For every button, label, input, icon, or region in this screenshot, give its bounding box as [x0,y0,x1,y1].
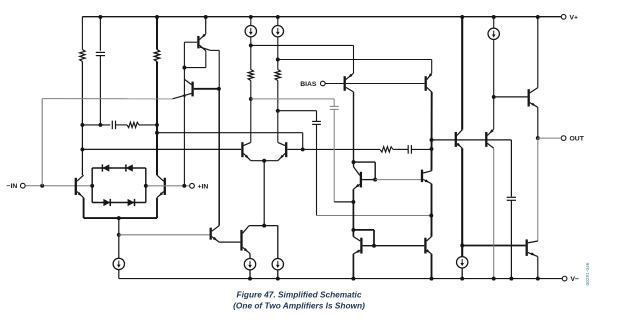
junction QmirL rail [351,277,355,281]
label V- [571,276,580,283]
junction RC/x157 [155,123,159,127]
node tail top [117,216,121,220]
current source I1 [245,26,256,37]
capacitor C6 (RC series) [112,121,115,130]
junction QA diode node [182,66,186,70]
wire R1 to Q1 collector [81,62,83,176]
wire Qcasc emitter down (heavy) [431,184,433,237]
label V+ [570,14,579,21]
wire Q13 emitter down (heavy) [461,148,463,257]
junction rail I3 [492,15,496,19]
current source I5 [244,259,255,270]
wire rail down to R2 [156,17,158,50]
wire QA 2nd collector to x219 [211,49,220,51]
junction I7 rail [460,277,464,281]
wire I5 to rail [249,270,251,279]
junction I6 rail [276,277,280,281]
wire down to Qbias1 emitter [353,45,355,73]
wire C2 column bottom [316,125,318,216]
wire QA base left [184,41,197,43]
junction I5 rail [248,277,252,281]
wire C1 down to RC node [99,56,101,125]
wire C6 to R6 [116,124,127,126]
junction cascode y215 [429,214,433,218]
capacitor C2 [312,121,321,124]
junction rail I2 [276,15,280,19]
wire pair emitter join [251,160,278,162]
wire pair tail down [263,161,265,226]
wire QD2 emitter to I5 [249,254,251,259]
wire mirror hook right [353,229,374,231]
current source I6 [272,259,283,270]
capacitor C1 [96,52,105,55]
wire C2 feed [278,110,317,112]
junction cascode base tap [430,138,434,142]
wire Qcasc base feed (gray) [375,179,421,181]
wire C3 column top [333,99,335,106]
junction QmirR rail [430,277,434,281]
svg-text:Figure 47. Simplified Schemati: Figure 47. Simplified Schematic [237,290,362,300]
terminal OUT [561,136,566,141]
transistor Qbias2 (PNP) [426,73,433,92]
wire QA collector down [205,51,207,68]
wire I6 to rail [277,270,279,279]
wire R2 to Q2 collector (thick) [156,62,158,176]
wire Q14 collector down (gray) [493,148,495,279]
wire R6 to node x157 [139,124,157,126]
wire QmirL emitter to rail [352,254,354,279]
wire Qgain base [362,179,375,181]
wire rail to C1 [99,17,101,51]
wire Q8 base hook down [302,133,304,150]
junction Q8 base node [301,147,305,151]
wire down to Qbias2 emitter [431,60,433,74]
wire QmirL base [363,245,374,247]
diode D3 [103,199,110,206]
wire QoutT emitter to OUT [537,107,539,138]
diode D1 [102,164,109,171]
transistor QmirL (NPN diode-connected) [353,237,361,254]
wire QD2 collector wire y225 [249,225,278,227]
current source I7 [457,257,468,268]
capacitor C3 [330,106,339,109]
junction rail QoutT [536,15,540,19]
wire bias interbase [346,83,425,85]
transistor Q7 (2nd stage left) [242,142,250,161]
wire QA base down [183,42,185,67]
wire Qbias2 collector down (heavy) [431,92,433,171]
wire R4 to Q8 collector [277,81,279,143]
wire I1 to R3 [250,37,252,70]
current source I4 (input tail) [113,258,124,269]
wire QoutB emitter to rail [537,257,539,279]
label +IN [198,183,209,190]
wire rail to I1 [250,17,252,26]
wire x219 down to QD1 collector [218,89,220,226]
wire emitter join [84,217,157,219]
junction mirror hook top [351,228,355,232]
junction rail C1 [98,15,102,19]
transistor QA (PNP diode-connected) [198,34,210,51]
current source I2 [272,26,283,37]
junction rail I1 [249,15,253,19]
junction rail QA [204,15,208,19]
transistor QmirR (NPN) [425,237,431,254]
wire bottom V- rail [119,278,562,280]
label -IN [7,183,18,190]
wire QB base to x219 (thick) [194,88,219,90]
svg-text:V−: V− [571,276,580,283]
node bridge right [144,184,148,188]
label OUT [570,136,585,143]
caption line 2 [233,300,365,310]
wire rail down to Q13 collector (heavy) [461,17,463,130]
transistor Q14 (PNP) [486,129,493,148]
wire OUT stub [538,137,562,139]
wire QmirR base feed [374,245,424,247]
wire -IN lead [25,185,92,187]
wire QmirL collector stub [352,230,354,237]
junction miller tap [430,147,434,151]
wire QA collector to base link [184,67,205,69]
node -IN junction [40,184,44,188]
resistor R3 [248,70,253,81]
terminal -IN [20,183,25,188]
svg-text:00291-046: 00291-046 [585,262,591,285]
wire Q2 emitter down [156,198,158,218]
transistor Qcasc (NPN) [422,170,432,184]
figure code (rotated) [585,262,591,285]
transistor Q1 (input left NPN) [76,175,84,198]
wire I3 column to Q14 emitter [493,97,495,129]
svg-text:(One of Two Amplifiers Is Show: (One of Two Amplifiers Is Shown) [233,300,365,310]
wire BIAS lead [325,83,343,85]
junction Qgain emitter node [351,200,355,204]
transistor Q8 (2nd stage right) [278,142,286,161]
wire C2 column top [316,111,318,121]
junction I1 emitter tap [249,43,253,47]
terminal V- [562,276,567,281]
wire to I6 [277,226,279,259]
transistor Q2 (input right NPN) [157,175,165,198]
resistor R1 [80,50,85,62]
terminal +IN [190,183,195,188]
transistor QoutB (NPN output bottom) [527,239,538,256]
wire C4 to cascode column [412,148,432,150]
resistor R2 [154,50,159,62]
wire hook right [354,161,376,163]
wire -IN riser [41,99,43,186]
wire I2 to R4 [277,37,279,70]
wire Qgain collector stub [353,162,355,167]
wire QD1 emitter to QD2 base [219,241,240,243]
wire Qbias2 emitter feed [278,59,432,61]
wire tail down [118,218,120,258]
wire RC net left segment [82,124,110,126]
junction rail x462 [460,15,464,19]
transistor Qgain (NPN diode-connected) [353,167,361,190]
svg-text:+IN: +IN [198,183,209,190]
terminal BIAS [320,81,325,86]
transistor Q13 (NPN) [456,130,462,148]
transistor QoutT (NPN output top) [529,88,538,108]
junction R1/RC [80,123,84,127]
wire I7 to rail [461,268,463,279]
label BIAS [300,81,317,88]
transistor QB (NPN level shift) [173,79,193,98]
diode D4 [128,199,135,206]
svg-text:OUT: OUT [570,136,585,143]
resistor R5 (miller) [380,147,393,152]
wire Q2 collector to Q8 base (horiz) [157,132,303,134]
wire I4 to V- rail [118,270,120,279]
junction QoutT base tap [492,95,496,99]
svg-text:V+: V+ [570,14,579,21]
terminal V+ [561,14,566,19]
caption line 1 [237,290,362,300]
transistor QD1 [211,226,220,243]
wire -IN to Q4 emitter (gray) [42,98,172,100]
transistor QD2 [242,226,251,254]
resistor R4 [275,70,280,81]
junction C1/RC [98,123,102,127]
diode D2 [126,164,133,171]
wire rail to I2 [277,17,279,26]
wire hook down [374,162,376,180]
wire QmirR emitter to rail [431,254,433,279]
wire Q8 base segment [287,148,302,150]
wire R3 to Q7 collector [250,81,252,143]
wire QoutB base feed [462,245,525,247]
capacitor C5 [507,197,516,200]
wire Qgain emitter down [352,189,354,230]
junction mirror base node [372,244,376,248]
junction Q1 collector node [80,147,84,151]
node bridge left [90,184,94,188]
diode bridge outline [92,168,146,203]
node OUT [536,136,540,140]
wire top V+ rail [82,16,561,18]
resistor R6 (RC series) [127,122,139,127]
node +IN junction [182,184,186,188]
wire +IN lead [146,185,190,187]
wire miller R5 feed [303,148,380,150]
wire x219 down to QB base [218,50,220,88]
junction C5 rail [509,277,513,281]
wire rail to QoutT collector [537,17,539,88]
wire common base y140 [432,139,512,141]
wire Q1 collector to Q7 base [82,148,241,150]
wire C3 column bottom [333,110,335,202]
wire Q1 emitter down [83,198,85,218]
wire C3 feed (gray) [251,98,334,100]
wire I3 down [493,39,495,97]
svg-text:−IN: −IN [7,183,18,190]
current source I3 [488,28,499,39]
wire R5 to C4 [393,148,408,150]
wire base hook down x511 [510,140,512,197]
wire tail base feed (gray) [119,234,210,236]
junction R3 tap [249,97,253,101]
junction I2 emitter tap [276,58,280,62]
junction Q14 rail [492,277,496,281]
wire Qbias1 collector down [353,92,355,162]
transistor Qbias1 (PNP) [345,73,354,92]
node pair tail [262,159,266,163]
junction tail2 bottom [262,224,266,228]
node tail mid [117,233,121,237]
junction Qgain hook top [352,160,356,164]
junction QoutB base tap [460,244,464,248]
capacitor C4 (miller) [408,145,411,154]
wire QoutT base feed [494,96,528,98]
junction rail R2 [155,15,159,19]
wire Qbias1 emitter feed [251,44,354,46]
wire V+ corner down to R1 [81,17,83,50]
wire rail to QA emitter [205,17,207,34]
junction QB base [217,87,221,91]
wire C3 to Qgain emitter node [334,201,352,203]
wire OUT down to QoutB (gray) [537,138,539,241]
wire rail to I3 [493,17,495,28]
wire mirror hook down [373,230,375,246]
wire node to +IN column [183,68,185,186]
wire C2 to cascode (gray) [317,215,432,217]
svg-text:BIAS: BIAS [300,81,317,88]
junction x157 y132.7 [155,131,159,135]
junction QoutB rail [536,277,540,281]
wire C5 to rail [510,200,512,278]
junction R4 tap [276,109,280,113]
junction Qgain base node [373,178,377,182]
